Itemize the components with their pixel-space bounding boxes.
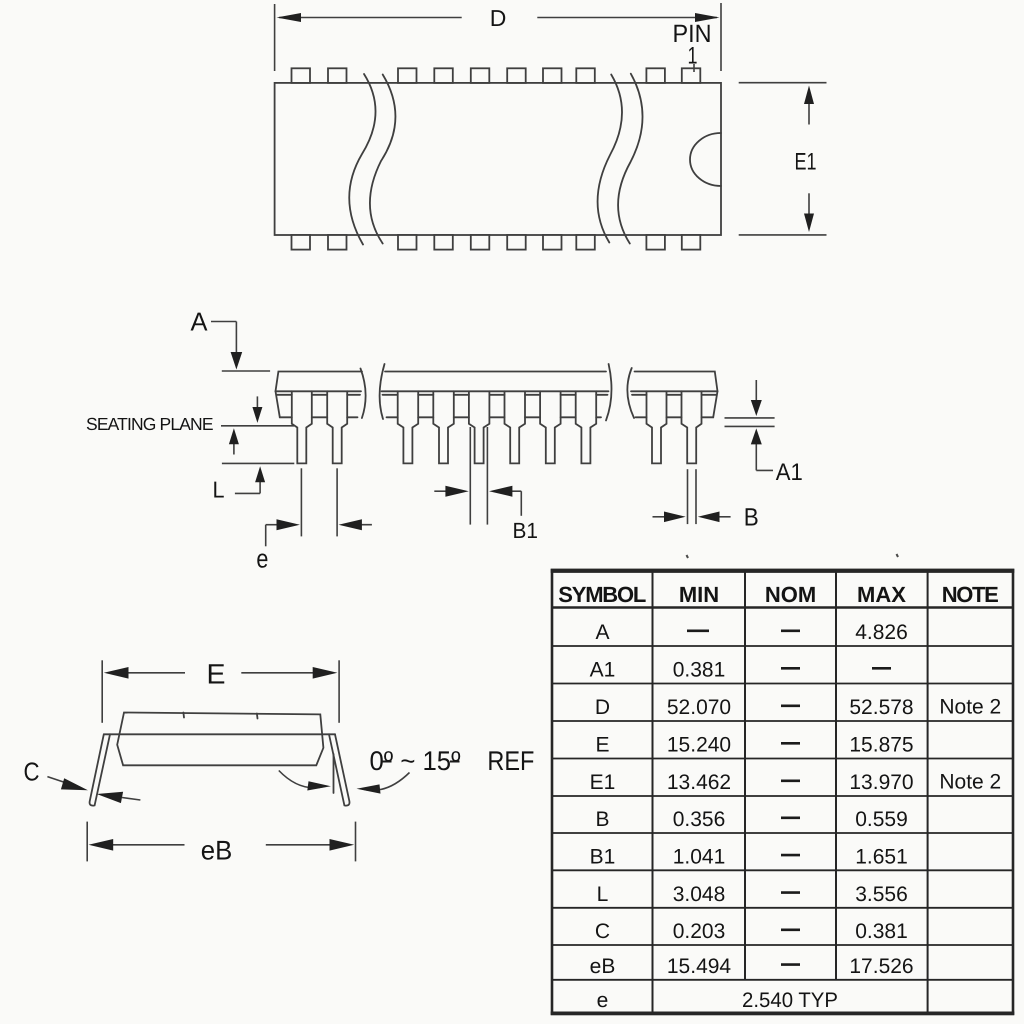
side view break curve middle piece end	[606, 364, 612, 420]
side view pin 3	[398, 391, 419, 463]
end view 0-degree reference line	[333, 754, 335, 793]
svg-text:1.041: 1.041	[673, 845, 726, 868]
seating plane arrowhead up	[229, 428, 239, 444]
L leader	[235, 492, 260, 494]
C arrowhead outer	[61, 778, 88, 790]
svg-text:0.381: 0.381	[855, 920, 908, 943]
svg-text:2.540 TYP: 2.540 TYP	[742, 989, 838, 1012]
A1 arrowhead down	[751, 400, 762, 416]
svg-text:C: C	[595, 920, 610, 943]
E1 arrowhead up	[804, 86, 814, 105]
B1 arrowhead left	[489, 486, 512, 497]
end view lead row line	[104, 733, 335, 735]
side view pin 8	[576, 391, 597, 463]
E arrowhead right	[313, 667, 338, 679]
svg-text:1: 1	[688, 43, 698, 70]
dash B1 NOM	[781, 854, 800, 857]
E1 arrowhead down	[804, 214, 814, 233]
B1 arrowhead right	[445, 486, 468, 497]
dimension E1 extension top	[739, 82, 827, 84]
end view right lead	[329, 734, 349, 805]
svg-text:eB: eB	[590, 955, 616, 978]
svg-text:3.048: 3.048	[673, 883, 726, 906]
svg-text:B: B	[595, 808, 609, 831]
e extension lines	[300, 468, 302, 536]
B extension lines	[687, 469, 689, 524]
table column lines	[652, 570, 654, 1014]
D arrowhead right	[695, 13, 720, 22]
D arrowhead left	[277, 13, 302, 22]
svg-text:C: C	[24, 756, 40, 786]
angle arc outer arrowhead	[357, 784, 381, 793]
svg-text:15.875: 15.875	[849, 734, 913, 757]
dimension D line left	[279, 17, 462, 19]
svg-text:3.556: 3.556	[855, 883, 908, 906]
svg-text:B1: B1	[512, 518, 538, 543]
eB extension lines	[86, 822, 88, 862]
dimension E1 extension bottom	[739, 234, 827, 236]
dash D NOM	[781, 704, 800, 707]
dimension A leader	[211, 321, 236, 323]
angle arc inner	[279, 771, 324, 788]
svg-text:REF: REF	[487, 746, 534, 776]
B arrow tails	[653, 516, 667, 518]
angle arc inner arrowhead	[307, 781, 331, 790]
side view break curve left piece end	[361, 369, 366, 419]
top view pin-1 notch semicircle	[690, 133, 721, 186]
A1 reference lines	[725, 417, 775, 419]
svg-text:D: D	[490, 5, 507, 31]
top view break lines left	[349, 74, 375, 245]
end view left lead	[90, 734, 110, 805]
dimension D extension lines	[274, 4, 276, 71]
svg-text:L: L	[213, 477, 225, 503]
svg-text:0.356: 0.356	[673, 808, 726, 831]
svg-text:4.826: 4.826	[855, 621, 908, 644]
svg-text:0.203: 0.203	[673, 920, 726, 943]
dash A1 MAX	[872, 667, 891, 670]
side view body right piece	[635, 372, 718, 418]
seating plane line	[221, 425, 294, 427]
A1 arrowhead up	[751, 428, 762, 444]
e arrowhead left	[339, 519, 362, 530]
dash A MIN	[687, 629, 709, 632]
svg-text:SYMBOL: SYMBOL	[558, 582, 646, 607]
e right arrow tail	[348, 524, 372, 526]
side view body left piece	[276, 372, 363, 418]
svg-text:e: e	[597, 989, 609, 1012]
e arrowhead right	[277, 519, 300, 530]
svg-text:13.970: 13.970	[849, 771, 913, 794]
svg-text:13.462: 13.462	[667, 771, 731, 794]
E extension lines	[101, 660, 103, 723]
dash L NOM	[781, 891, 800, 894]
dash E NOM	[781, 742, 800, 745]
svg-text:52.070: 52.070	[667, 696, 731, 719]
svg-text:e: e	[256, 544, 268, 574]
E dimension lines	[124, 672, 185, 674]
svg-text:0.381: 0.381	[673, 659, 726, 682]
dimension E1 arrow shafts	[808, 95, 810, 125]
svg-text:E1: E1	[590, 771, 616, 794]
dash eB NOM	[781, 963, 800, 966]
svg-text:NOM: NOM	[765, 582, 816, 607]
C arrowhead inner	[97, 792, 123, 803]
B1 arrow tails	[434, 490, 447, 492]
side view pin 5	[469, 391, 490, 463]
A leader arrowhead	[231, 352, 243, 370]
svg-text:L: L	[597, 883, 609, 906]
side view pin 7	[540, 391, 561, 463]
top view break lines right	[598, 75, 622, 243]
B arrowhead left	[698, 512, 720, 523]
E arrowhead left	[104, 667, 129, 679]
eB arrowhead left	[89, 839, 114, 851]
svg-text:SEATING PLANE: SEATING PLANE	[86, 414, 214, 434]
svg-text:17.526: 17.526	[849, 955, 913, 978]
eB arrowhead right	[330, 839, 355, 851]
svg-text:A: A	[191, 307, 209, 337]
eB dimension lines	[110, 844, 185, 846]
ordinal underlines	[382, 761, 392, 763]
table header bottom line	[552, 606, 1013, 609]
seating plane small arrow shafts	[256, 396, 258, 409]
svg-text:eB: eB	[201, 836, 233, 866]
svg-text:15.240: 15.240	[667, 734, 731, 757]
end view body outline	[117, 713, 323, 766]
svg-text:52.578: 52.578	[849, 696, 913, 719]
svg-text:E1: E1	[795, 149, 817, 176]
svg-text:0.559: 0.559	[855, 808, 908, 831]
svg-text:NOTE: NOTE	[942, 582, 999, 607]
side view pin 6	[505, 391, 526, 463]
side view pin 1	[292, 391, 312, 463]
svg-text:Note 2: Note 2	[939, 771, 1001, 794]
side view body middle piece	[385, 371, 606, 373]
side view break curve right piece start	[627, 368, 634, 418]
side view pin 2	[327, 391, 347, 463]
L reference line	[222, 462, 294, 464]
svg-text:15.494: 15.494	[667, 955, 732, 978]
side view break curve middle piece start	[380, 364, 385, 419]
table outer border	[552, 570, 1013, 1014]
svg-text:E: E	[595, 734, 609, 757]
A1 arrow shafts	[755, 380, 757, 402]
svg-text:E: E	[207, 659, 226, 690]
dimension D line right	[537, 17, 717, 19]
body top reference line	[222, 370, 270, 372]
angle arc outer	[362, 773, 410, 791]
svg-text:A: A	[595, 621, 609, 644]
svg-text:1.651: 1.651	[855, 845, 908, 868]
C leader line	[47, 777, 68, 784]
dash B NOM	[781, 816, 800, 819]
svg-text:A1: A1	[776, 459, 803, 486]
svg-text:A1: A1	[590, 659, 616, 682]
top view pins bottom row	[292, 235, 311, 250]
B1 extension lines	[469, 427, 471, 525]
svg-text:Note 2: Note 2	[939, 696, 1001, 719]
svg-text:B: B	[744, 503, 759, 531]
dash C NOM	[781, 928, 800, 931]
side view pin 10	[682, 391, 702, 463]
seating plane arrowhead down	[252, 407, 262, 423]
dash A1 NOM	[781, 667, 800, 670]
svg-text:D: D	[595, 696, 610, 719]
table row lines	[552, 645, 1013, 647]
side view pin 4	[433, 391, 454, 463]
pin1 leader tick	[693, 64, 695, 72]
top view pins top row	[292, 68, 311, 83]
C inner arrow tail	[122, 798, 140, 801]
end view mold tick marks	[182, 713, 185, 718]
top view package body	[275, 83, 721, 235]
dash E1 NOM	[781, 779, 800, 782]
svg-text:MAX: MAX	[857, 582, 906, 607]
side view pin 9	[647, 391, 667, 463]
e leader	[266, 524, 278, 526]
dash A NOM	[781, 629, 800, 632]
scan speck marks	[687, 555, 689, 558]
L arrowhead up	[255, 466, 265, 482]
B arrowhead right	[664, 512, 686, 523]
svg-text:MIN: MIN	[679, 582, 719, 607]
svg-text:B1: B1	[590, 845, 616, 868]
